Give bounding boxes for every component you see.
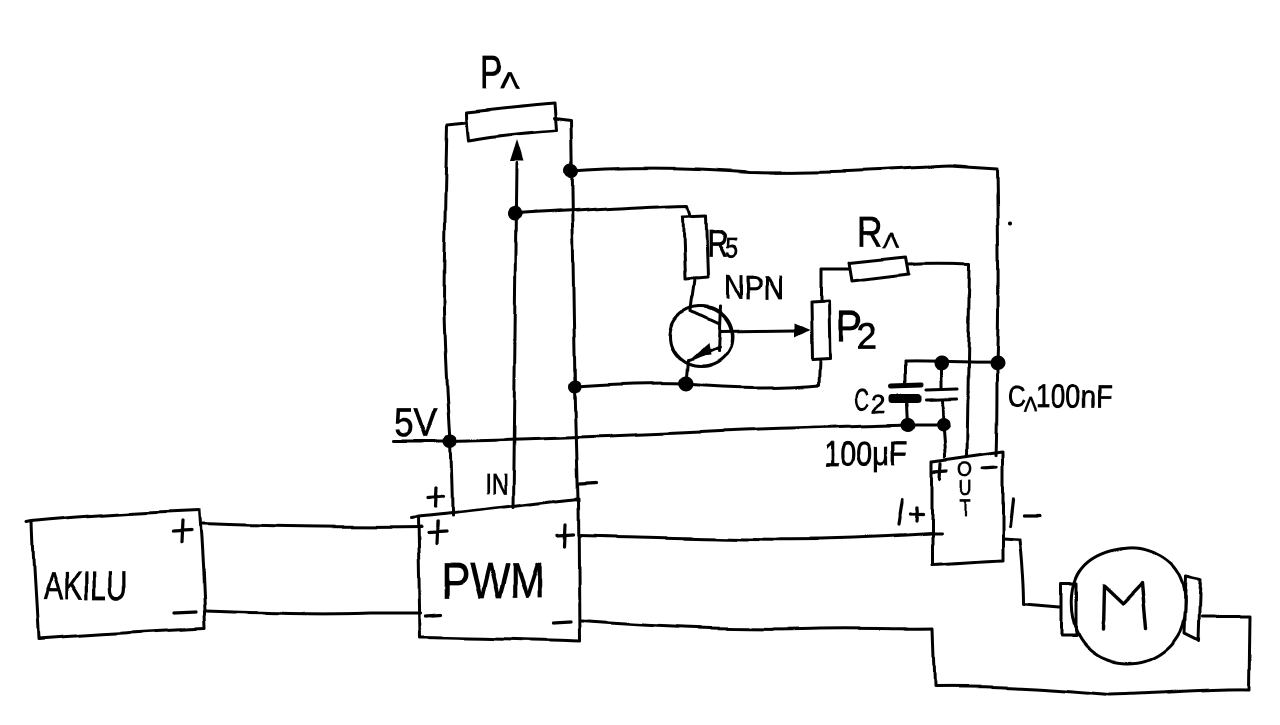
- svg-text:AKILU: AKILU: [43, 563, 128, 609]
- svg-text:NPN: NPN: [724, 269, 784, 306]
- svg-text:100μF: 100μF: [824, 435, 908, 473]
- svg-text:5V: 5V: [394, 401, 437, 445]
- svg-text:P: P: [480, 46, 502, 98]
- svg-text:C: C: [854, 382, 869, 417]
- svg-text:5: 5: [725, 232, 738, 265]
- svg-text:Λ: Λ: [883, 228, 899, 253]
- svg-text:2: 2: [857, 316, 877, 358]
- svg-text:100nF: 100nF: [1036, 378, 1112, 415]
- svg-text:R: R: [857, 208, 882, 255]
- svg-text:Λ: Λ: [500, 67, 519, 93]
- svg-text:T: T: [960, 495, 971, 522]
- svg-text:PWM: PWM: [441, 553, 545, 609]
- svg-text:IN: IN: [485, 469, 508, 501]
- svg-text:2: 2: [871, 389, 886, 419]
